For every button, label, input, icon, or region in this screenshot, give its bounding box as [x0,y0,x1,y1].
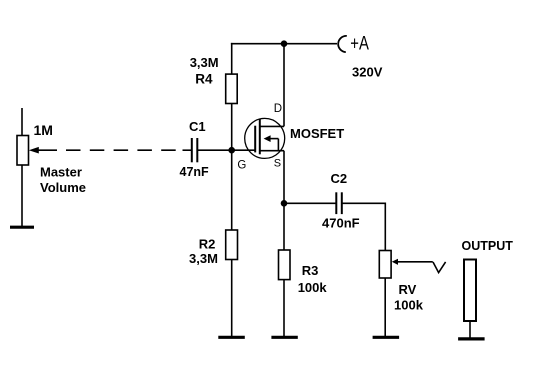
wire pot bottom lead [21,165,23,226]
potentiometer RV body [379,251,391,279]
ground (R2) [218,336,245,339]
svg-text:R2: R2 [199,237,216,252]
svg-text:OUTPUT: OUTPUT [462,239,514,253]
svg-text:3,3M: 3,3M [189,251,218,266]
mosfet gate bar [254,126,256,153]
wire R4 top to rail [231,43,233,74]
resistor R3 [279,250,291,280]
wire RV bottom [384,278,386,336]
svg-text:+A: +A [350,34,369,55]
potentiometer RV wiper arrow [392,259,398,265]
svg-text:Volume: Volume [40,180,86,195]
output jack body [464,260,476,322]
svg-text:1M: 1M [34,122,53,138]
svg-text:S: S [274,158,281,170]
mosfet drain stub [260,125,284,127]
resistor R2 [226,230,238,260]
capacitor C1 [191,138,193,162]
svg-text:47nF: 47nF [180,165,210,179]
wire dashed signal path [66,149,176,151]
wire C2 to RV corner [343,203,386,250]
wire R3 bottom [283,280,285,336]
wire R4 bottom to R2 top [231,104,233,231]
potentiometer 1M body [17,136,29,166]
wire source to C2 [284,202,336,204]
power connector +A [338,36,347,52]
svg-text:C2: C2 [331,171,348,186]
mosfet channel bar [259,119,261,154]
svg-text:R3: R3 [302,263,319,278]
svg-text:100k: 100k [298,280,328,295]
svg-text:R4: R4 [195,72,213,87]
svg-text:RV: RV [399,282,417,297]
resistor R4 [226,74,238,103]
mosfet body tie [277,139,279,151]
output test point V [433,262,446,273]
wire to C1 left plate [183,149,192,151]
wire C1 to gate [198,149,256,151]
mosfet body arrow [264,135,271,142]
svg-text:G: G [237,159,246,171]
mosfet U1 circle [245,118,285,158]
mosfet source stub [260,150,284,152]
wire jack bottom [469,321,471,338]
wire R2 bottom [231,260,233,337]
node source junction [281,200,288,207]
svg-text:470nF: 470nF [322,215,360,230]
svg-text:3,3M: 3,3M [190,55,219,70]
svg-text:MOSFET: MOSFET [290,126,344,141]
ground (output jack) [458,337,485,340]
wire drain lead [283,44,285,127]
svg-text:100k: 100k [394,297,424,312]
ground (pot) [10,226,34,229]
svg-text:C1: C1 [189,119,206,134]
svg-text:320V: 320V [352,65,383,80]
wire pot top lead [21,108,23,136]
ground (RV) [373,336,400,339]
ground (R3) [271,336,297,339]
capacitor C2 [335,192,337,214]
svg-text:Master: Master [40,164,82,179]
node drain junction [281,40,288,47]
wire top rail [231,43,337,45]
svg-text:D: D [274,103,282,115]
node gate junction [228,147,235,154]
wire source lead [283,151,285,250]
potentiometer 1M wiper arrow [29,147,39,154]
